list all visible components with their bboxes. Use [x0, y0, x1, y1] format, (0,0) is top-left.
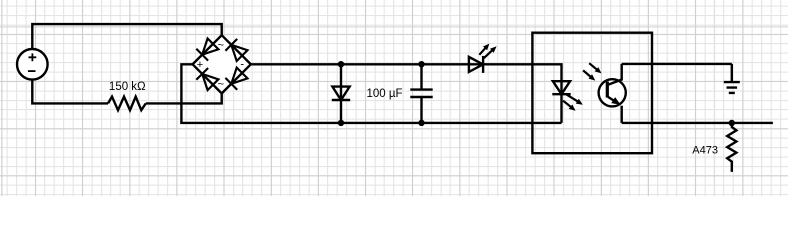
wire emitter to bottom right rail [622, 122, 773, 124]
wire from source bottom to resistor [32, 80, 108, 104]
svg-text:150 kΩ: 150 kΩ [109, 81, 146, 93]
bridge label ~ bottom [218, 78, 224, 90]
bridge diode top-right [225, 39, 247, 61]
node diode top [338, 61, 344, 67]
svg-text:~: ~ [218, 78, 224, 90]
svg-text:A473: A473 [692, 144, 718, 156]
ground [724, 64, 740, 93]
LED D2 [469, 44, 497, 73]
svg-text:-: - [240, 59, 244, 71]
bridge label + left [197, 59, 203, 71]
dc source V1 [17, 49, 48, 80]
bridge diode bottom-right [225, 68, 247, 90]
node capacitor bottom [418, 120, 424, 126]
capacitor C1 100 uF [410, 64, 432, 123]
wire top rail from bridge - to optocoupler [251, 64, 562, 123]
bridge label ~ top [218, 40, 224, 52]
label 100 uF [366, 88, 402, 100]
wire collector to ground [622, 63, 732, 65]
resistor R2 A473 [727, 123, 736, 172]
resistor R1 150 kOhm [108, 97, 146, 111]
wire from resistor to bridge bottom vertex [146, 93, 222, 103]
label A473 [692, 144, 718, 156]
light arrows into phototransistor [583, 63, 601, 80]
wire from bridge + to bottom rail [181, 64, 561, 123]
svg-text:~: ~ [218, 40, 224, 52]
svg-text:+: + [197, 59, 203, 71]
label 150 kOhm [109, 81, 146, 93]
bridge diode top-left [196, 39, 218, 61]
optocoupler U1 box [532, 33, 652, 154]
node resistor junction [729, 120, 735, 126]
phototransistor Q1 [599, 64, 626, 123]
wire top rail from source to bridge [32, 24, 221, 49]
bridge rectifier BR1 diamond [193, 35, 251, 93]
diode D1 [332, 64, 350, 123]
bridge diode bottom-left [196, 68, 218, 90]
svg-text:100 µF: 100 µF [366, 88, 402, 100]
bridge label - right [240, 59, 244, 71]
optocoupler LED [552, 81, 583, 111]
node capacitor top [418, 61, 424, 67]
node diode bottom [338, 120, 344, 126]
